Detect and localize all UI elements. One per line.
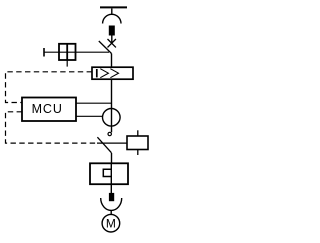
svg-text:M: M: [106, 217, 116, 231]
svg-text:MCU: MCU: [32, 102, 63, 116]
